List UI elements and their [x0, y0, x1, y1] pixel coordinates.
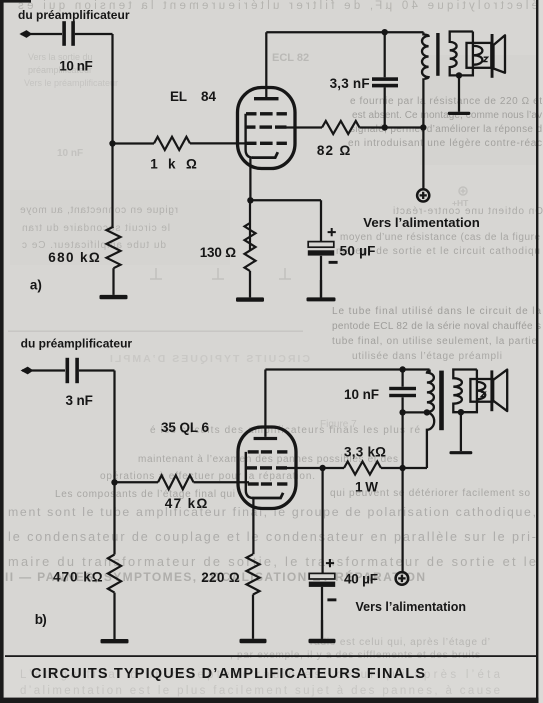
svg-text:82: 82 — [317, 143, 333, 158]
speaker LS1 driver box — [467, 43, 492, 68]
svg-text:tube final, on utilise seuleme: tube final, on utilise seulement, la par… — [332, 336, 537, 347]
svg-text:Ω: Ω — [186, 157, 197, 172]
junction secondary ground node B — [458, 409, 464, 415]
svg-text:10 nF: 10 nF — [57, 148, 83, 159]
svg-text:opérations à effectuer pour la: opérations à effectuer pour la réparatio… — [100, 471, 315, 482]
junction secondary ground node — [456, 72, 462, 78]
wire R 82 to B+ line — [360, 126, 424, 128]
V1 cathode — [252, 152, 278, 157]
svg-text:35 QL 6: 35 QL 6 — [161, 420, 209, 435]
wire input node down — [111, 34, 113, 144]
resistor 680 kOhm — [107, 227, 121, 269]
V2 grid g1 dashes — [248, 482, 288, 485]
wire cap to input node — [75, 33, 113, 35]
junction cathode node A — [247, 197, 253, 203]
svg-text:1: 1 — [150, 157, 158, 172]
transformer T2 core — [439, 371, 444, 431]
wire C 40uF to ground — [321, 587, 323, 639]
ground 470k — [113, 593, 115, 639]
V1 grid g1 dashes — [246, 142, 287, 145]
svg-text:radio est celui qui, après l’é: radio est celui qui, après l’étage d’ — [310, 637, 490, 648]
svg-text:le condensateur de couplage et: le condensateur de couplage et le conden… — [8, 530, 536, 544]
wire 40uF tap down — [321, 468, 323, 573]
svg-text:ECL 82: ECL 82 — [272, 52, 309, 64]
speaker LS2 driver box — [470, 379, 492, 402]
capacitor 10 nF B — [401, 370, 403, 413]
tube V1 EL 84 envelope — [238, 88, 296, 169]
svg-text:3 nF: 3 nF — [66, 393, 93, 408]
resistor 3,3 kOhm — [344, 462, 381, 475]
junction T2 tap on B+ line — [399, 409, 405, 415]
svg-text:40 µF: 40 µF — [344, 572, 378, 587]
svg-text:Vers l’alimentation: Vers l’alimentation — [363, 215, 480, 230]
supply terminal B (circled +) — [396, 572, 409, 585]
transformer T1 primary — [422, 32, 429, 79]
transformer T1 core — [436, 33, 439, 76]
V1 suppressor-cathode link — [246, 114, 254, 158]
wire C 50uF to ground — [320, 256, 322, 298]
resistor 47 kOhm — [158, 475, 194, 489]
V2 anode — [254, 437, 278, 440]
V1 grid g3 dashes — [246, 112, 287, 115]
svg-text:Ω: Ω — [340, 143, 351, 158]
speaker LS1 voice coil — [474, 46, 483, 65]
svg-text:du préamplificateur: du préamplificateur — [21, 337, 133, 351]
ground 50 uF — [320, 280, 322, 297]
wire g2 to R 3.3k — [287, 467, 344, 469]
svg-text:Vers le préamplificateur: Vers le préamplificateur — [24, 78, 118, 88]
V1 cathode lead — [249, 158, 251, 201]
wire input node B down — [113, 371, 115, 483]
svg-text:rgique en connectant, au moye: rgique en connectant, au moye — [20, 205, 178, 216]
svg-text:Vers l’alimentation: Vers l’alimentation — [356, 600, 467, 614]
capacitor 3 nF (plates) — [66, 358, 70, 383]
svg-text:220 Ω: 220 Ω — [201, 570, 240, 585]
svg-text:utilisée dans l’étage préampli: utilisée dans l’étage préampli — [352, 351, 502, 362]
wire cathode node to C 50uF — [250, 200, 321, 241]
svg-text:1 W: 1 W — [355, 480, 378, 495]
B+ line B (10nF to supply) — [401, 412, 403, 572]
ground transformer secondary B — [460, 412, 462, 451]
svg-text:du préamplificateur: du préamplificateur — [18, 8, 130, 22]
wire to R 47k — [115, 481, 159, 483]
svg-text:3,3 nF: 3,3 nF — [330, 76, 370, 91]
resistor 130 Ohm — [245, 200, 256, 271]
capacitor 50 uF — [308, 242, 334, 248]
wire R 47k to grid — [194, 481, 250, 483]
ground 680k — [112, 268, 114, 295]
B+ line primary to supply — [422, 78, 424, 189]
wire g2 to R 82 — [287, 126, 323, 128]
svg-text:130 Ω: 130 Ω — [200, 245, 237, 260]
speaker LS1 z mark — [484, 57, 488, 61]
ground 130 Ohm — [249, 271, 251, 297]
capacitor 10 nF (plates) — [62, 21, 66, 46]
transformer T2 primary lower — [427, 413, 434, 468]
svg-text:b): b) — [35, 612, 47, 627]
V2 cathode — [252, 493, 283, 498]
junction screen node B — [399, 465, 405, 471]
junction rail tap 10nF — [399, 366, 405, 372]
speaker LS2 voice coil — [477, 382, 485, 399]
V2 suppressor-cathode link — [246, 452, 254, 498]
transformer T2 tap wire — [403, 411, 427, 413]
speaker LS2 frame bar — [490, 370, 493, 411]
svg-text:EL: EL — [170, 89, 187, 104]
speaker LS1 cone — [494, 35, 506, 73]
ground transformer secondary — [458, 75, 460, 111]
capacitor 40 uF — [309, 573, 335, 579]
speaker LS2 z mark — [481, 392, 485, 396]
capacitor 3,3 nF — [384, 32, 386, 127]
wire R 3.3k to screen node — [381, 467, 427, 469]
speaker LS2 cone — [493, 370, 507, 412]
transformer T2 secondary — [453, 370, 477, 413]
V2 grid g2 dashes — [246, 466, 287, 469]
resistor 470 kOhm — [108, 555, 121, 593]
resistor 82 Ohm — [322, 121, 360, 134]
junction rail tap 3.3nF — [382, 29, 388, 35]
V1 anode lead — [265, 32, 267, 97]
V1 grid g2 dashes — [245, 125, 287, 128]
junction B+ feedback node — [420, 124, 426, 130]
input arrow A — [19, 30, 32, 38]
wire node down to R 680k — [111, 144, 113, 227]
tube V2 35QL6 envelope — [238, 427, 296, 509]
speaker LS1 frame bar — [491, 34, 494, 78]
svg-text:Les composants de l’étage fina: Les composants de l’étage final qui — [55, 489, 235, 500]
svg-text:e fournie par la résistance de: e fournie par la résistance de 220 Ω et — [350, 96, 542, 107]
V2 anode lead — [264, 370, 266, 437]
svg-text:Le tube final utilisé dans le: Le tube final utilisé dans le circuit de… — [332, 306, 541, 317]
ground 40 uF — [321, 620, 323, 639]
svg-text:84: 84 — [201, 89, 217, 104]
junction 40uF tap node — [319, 465, 325, 471]
junction T2 tap coil side — [424, 409, 430, 415]
svg-text:d’alimentation est le plus fac: d’alimentation est le plus facilement su… — [20, 685, 500, 697]
svg-text:470 kΩ: 470 kΩ — [53, 570, 103, 585]
resistor 1 kOhm — [154, 137, 190, 150]
svg-text:47 kΩ: 47 kΩ — [165, 496, 208, 511]
supply terminal A (circled +) — [417, 189, 429, 201]
input arrow B — [21, 367, 34, 375]
svg-text:3,3 kΩ: 3,3 kΩ — [344, 445, 386, 460]
ground 220 Ohm — [252, 595, 254, 639]
junction grid node B — [111, 479, 117, 485]
svg-text:moyen d’une résistance (cas de: moyen d’une résistance (cas de la figure — [340, 232, 540, 243]
svg-text:10 nF: 10 nF — [59, 59, 93, 74]
svg-text:le circuit secondaire du tran: le circuit secondaire du tran — [22, 223, 170, 234]
wire to R 1k — [113, 142, 155, 144]
svg-text:signalé, permet d’améliorer la: signalé, permet d’améliorer la réponse d — [350, 124, 542, 135]
V1 anode — [254, 97, 279, 100]
wire node B down to R 470k — [113, 482, 115, 554]
top rail B anode to transformer — [265, 368, 429, 370]
svg-text:est absent. Ce montage, comme: est absent. Ce montage, comme nous l’av — [352, 110, 542, 121]
resistor 220 Ohm — [247, 554, 260, 594]
V2 grid g3 dashes — [248, 450, 288, 453]
junction grid node A — [109, 140, 115, 146]
wire R 1k to grid g1 — [190, 142, 248, 144]
transformer T1 secondary — [450, 32, 473, 76]
svg-text:10 nF: 10 nF — [344, 387, 379, 402]
svg-text:en introduisant une légère con: en introduisant une légère contre-réac — [348, 138, 542, 149]
transformer T2 primary upper — [427, 370, 434, 413]
svg-text:pentode ECL 82 de la série nov: pentode ECL 82 de la série noval chauffé… — [332, 321, 541, 332]
V2 cathode lead — [252, 498, 254, 554]
svg-text:50 µF: 50 µF — [340, 243, 376, 258]
svg-text:CIRCUITS TYPIQUES D’AMPLIFICAT: CIRCUITS TYPIQUES D’AMPLIFICATEURS FINAL… — [31, 666, 425, 682]
junction 3.3nF bottom node — [382, 124, 388, 130]
svg-text:a): a) — [30, 278, 42, 293]
top rail anode to transformer — [266, 31, 423, 33]
svg-text:k: k — [168, 157, 176, 172]
wire cap to input node B — [79, 369, 115, 371]
